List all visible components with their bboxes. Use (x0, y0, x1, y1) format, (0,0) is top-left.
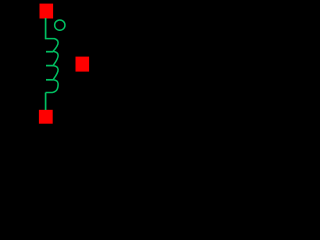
pad P2 (right red square) (76, 57, 90, 72)
inductor tap stub 1 (46, 51, 53, 53)
pad P1 (top red square) (40, 4, 54, 19)
inductor L1 body: shoulder and loop arcs (45, 39, 58, 93)
wire bottom vertical segment (45, 93, 47, 110)
inductor tap stub 3 (46, 79, 53, 81)
inductor tap stub 2 (46, 65, 53, 67)
node circle (open terminal) (55, 20, 65, 30)
wire top vertical segment (45, 18, 47, 39)
pad P3 (bottom red square) (39, 110, 53, 124)
background (0, 0, 128, 128)
